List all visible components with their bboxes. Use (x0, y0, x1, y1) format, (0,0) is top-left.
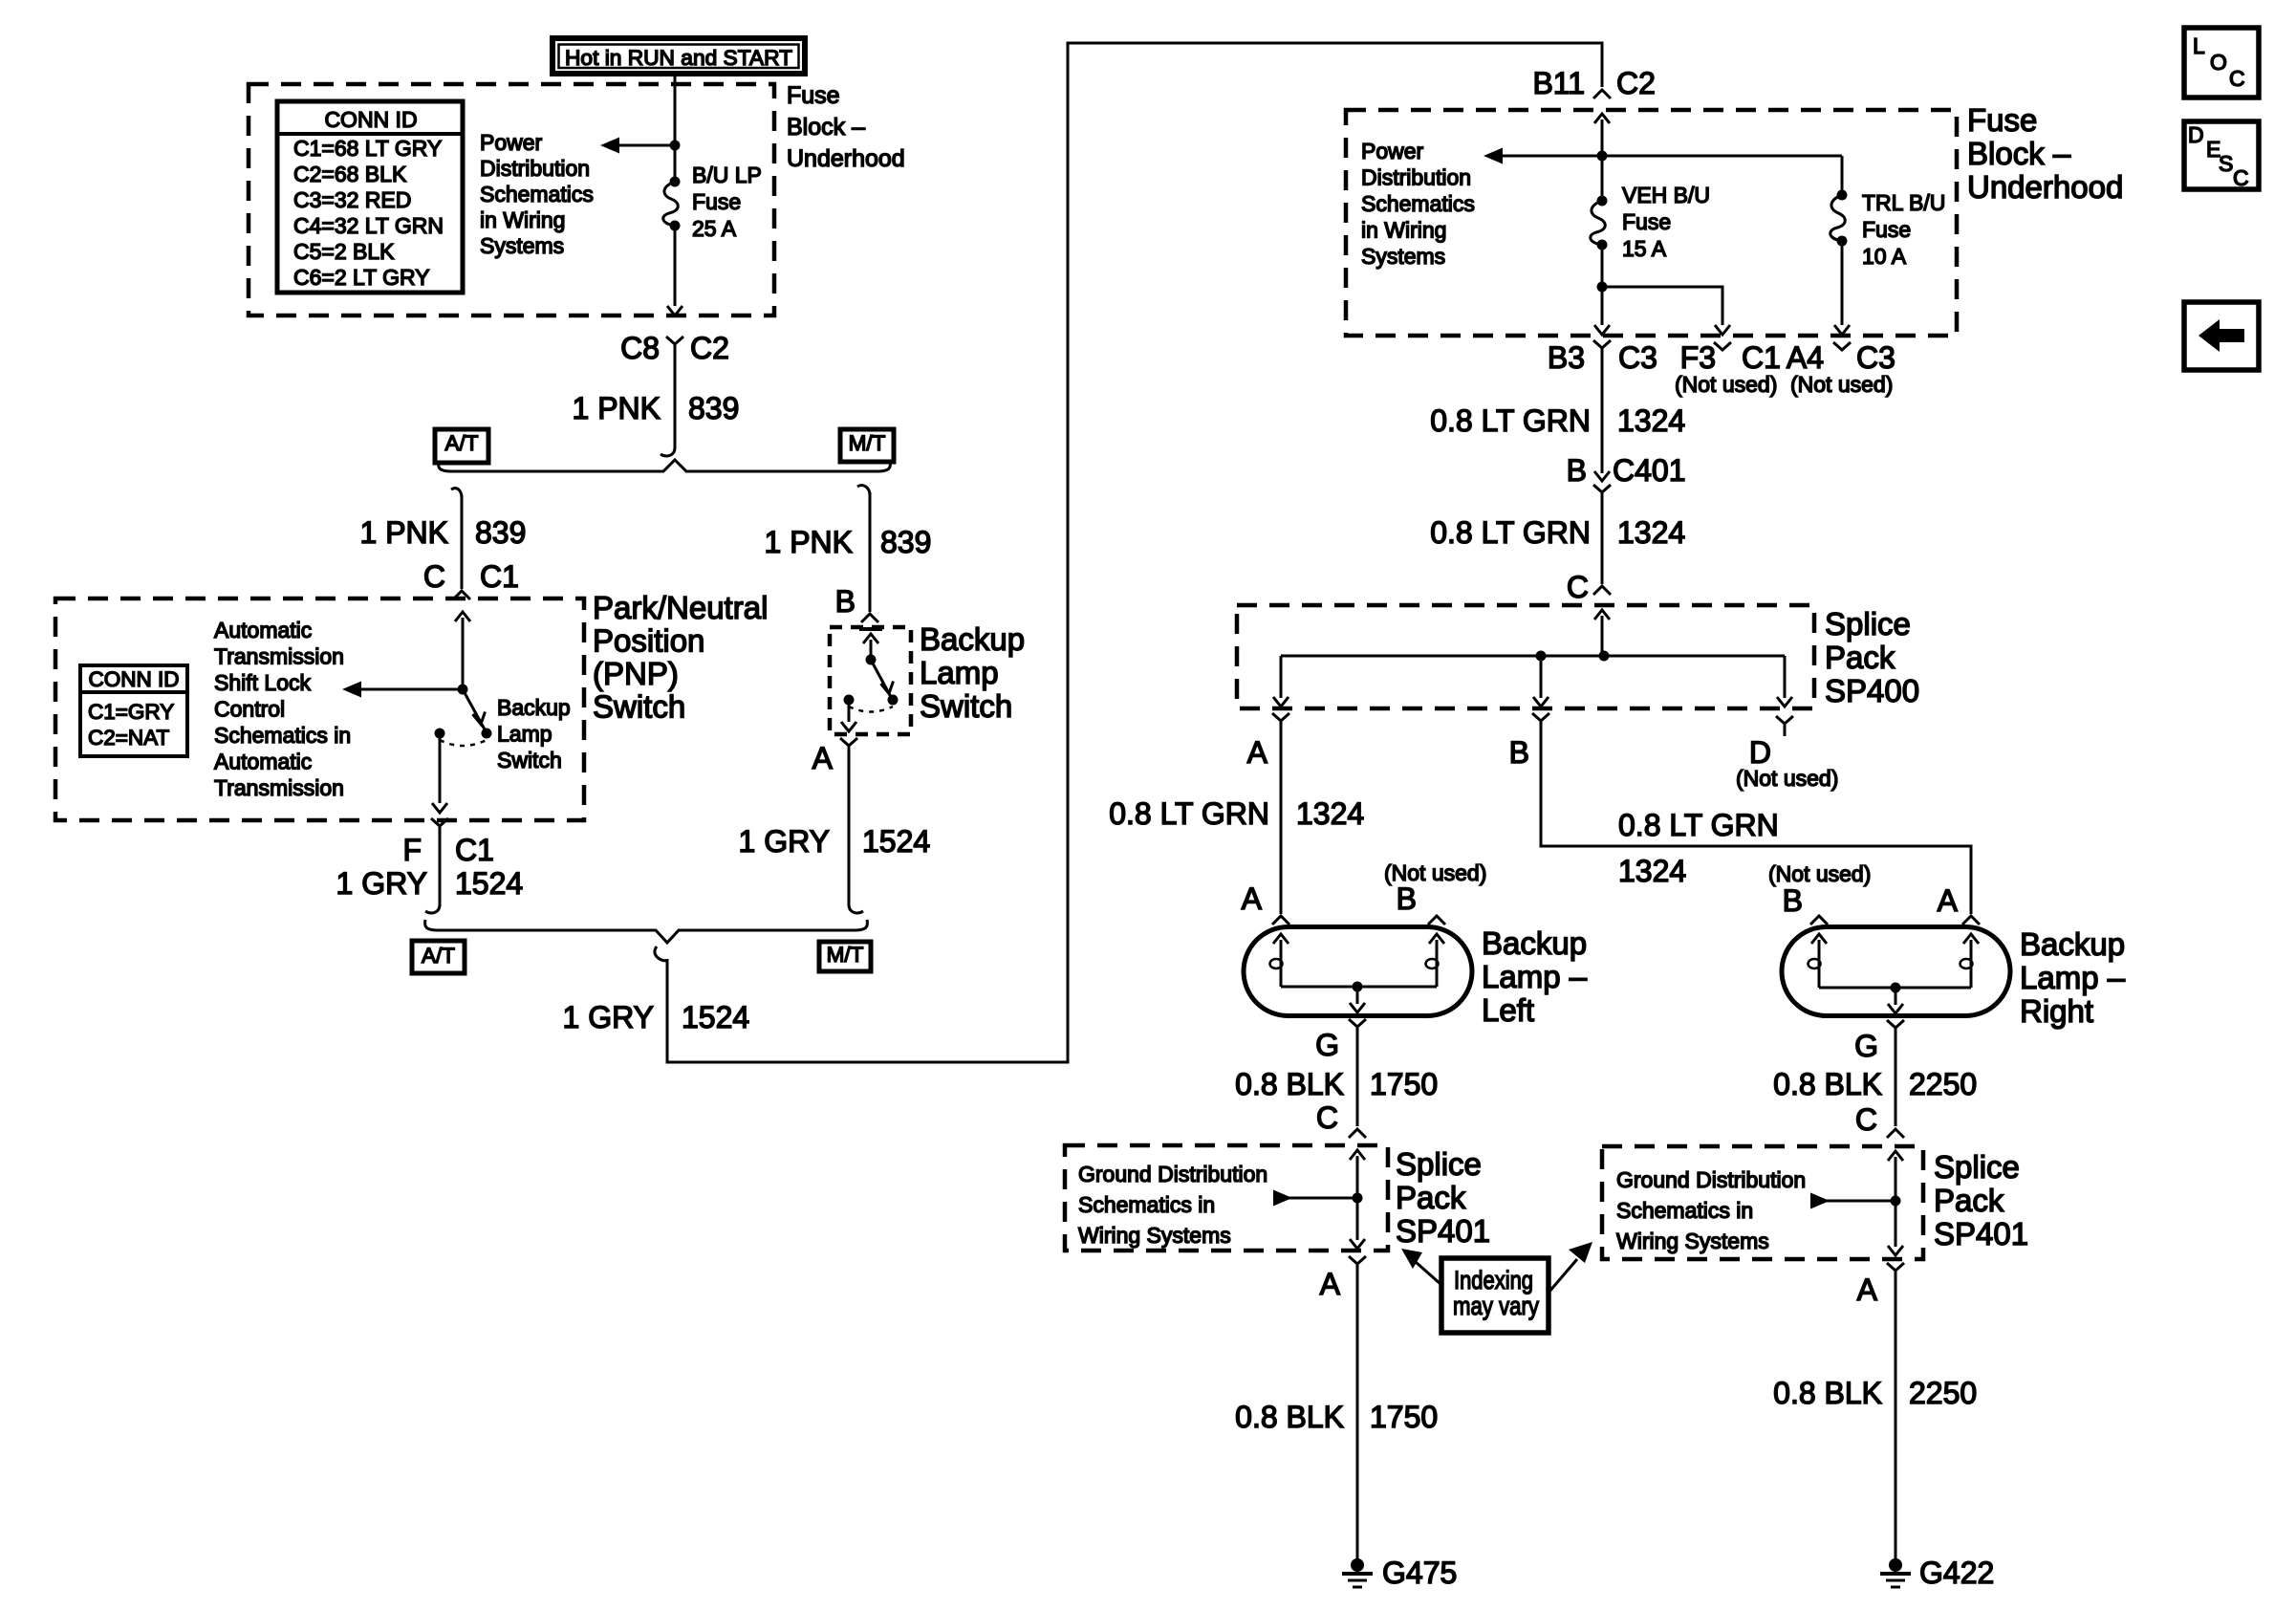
label M/T (840, 429, 894, 462)
node: bus junction C (1599, 651, 1610, 662)
svg-text:Power: Power (480, 130, 543, 155)
terminal B of SP400 (1509, 713, 1549, 770)
wire: TRL fuse feed down (1841, 156, 1844, 195)
wire: lamp right internal bar (1819, 987, 1971, 990)
svg-text:Fuse: Fuse (692, 189, 741, 214)
svg-text:Backup: Backup (1482, 925, 1587, 961)
terminal A of SP400 (1247, 713, 1289, 770)
svg-text:Shift Lock: Shift Lock (214, 670, 311, 695)
svg-text:C: C (1855, 1102, 1877, 1137)
wire: 0.8 LT GRN 1324 to right lamp (1541, 733, 1971, 914)
wire: SP400 terminal B drop (1540, 656, 1543, 698)
CONN ID table left (277, 101, 463, 293)
annotation: Ground Distribution Schematics right (1616, 1167, 1806, 1253)
svg-text:0.8 BLK: 0.8 BLK (1773, 1067, 1882, 1101)
switch arm arrow up (863, 634, 878, 643)
svg-text:0.8 LT GRN: 0.8 LT GRN (1430, 403, 1591, 438)
fuse TRL B/U 10 A (1830, 190, 1946, 270)
svg-text:Block –: Block – (1967, 136, 2071, 171)
svg-text:B: B (1783, 883, 1803, 918)
svg-text:2250: 2250 (1909, 1376, 1977, 1410)
svg-text:Distribution: Distribution (480, 156, 590, 181)
svg-text:A/T: A/T (444, 431, 478, 455)
wire label 1 PNK 839 (A/T branch) (360, 515, 527, 550)
svg-text:Splice: Splice (1825, 606, 1911, 642)
wire label 1 GRY 1524 (common) (563, 1000, 750, 1034)
terminal A of right lamp (1938, 883, 1980, 925)
terminal A of backup lamp switch (812, 738, 857, 775)
wire: A/T - M/T options split brace (439, 460, 891, 471)
svg-text:C2=68 BLK: C2=68 BLK (293, 162, 407, 186)
lamp left filament B (1429, 934, 1444, 944)
svg-text:B3: B3 (1548, 340, 1585, 375)
svg-text:C1: C1 (480, 559, 519, 594)
svg-text:Lamp: Lamp (497, 722, 552, 747)
svg-text:1 PNK: 1 PNK (573, 391, 661, 425)
svg-text:Control: Control (214, 697, 285, 722)
svg-text:SP400: SP400 (1825, 673, 1919, 708)
terminal G of right lamp (1854, 1020, 1904, 1063)
wire: M/T switch output (848, 700, 851, 722)
svg-text:Schematics: Schematics (1361, 191, 1475, 216)
lamp right filament A (1963, 934, 1979, 944)
svg-text:Right: Right (2020, 993, 2093, 1029)
wire: SP400 internal bus (1281, 655, 1785, 658)
wire: 1 GRY 1524 common run to right section (655, 946, 667, 961)
svg-text:(Not used): (Not used) (1736, 766, 1838, 791)
wire label 0.8 LT GRN 1324 (left lamp) (1109, 796, 1364, 831)
splice pack SP401 right dashed box (1602, 1146, 1923, 1259)
svg-text:C: C (1316, 1100, 1338, 1135)
label Fuse Block - Underhood (right) (1967, 102, 2123, 205)
svg-text:Left: Left (1482, 992, 1534, 1028)
fuse VEH B/U 15 A (1591, 183, 1710, 261)
svg-text:Switch: Switch (497, 748, 562, 772)
svg-text:Backup: Backup (497, 695, 571, 720)
node: PNP blade contact (482, 729, 492, 739)
svg-text:B: B (835, 584, 856, 619)
svg-text:Pack: Pack (1934, 1183, 2004, 1218)
park/neutral position switch dashed box (55, 598, 584, 820)
svg-text:TRL B/U: TRL B/U (1862, 190, 1945, 215)
wire: indexing note arrow to SP401 left (1416, 1262, 1440, 1284)
node: M/T blade contact (888, 695, 899, 706)
wire: ground distribution reference arrow right (1810, 1193, 1830, 1209)
svg-text:2250: 2250 (1909, 1067, 1977, 1101)
svg-text:C2: C2 (690, 331, 729, 365)
svg-text:Block –: Block – (787, 114, 865, 141)
fuse B/U LP 25 A (663, 163, 762, 241)
svg-text:C1=GRY: C1=GRY (88, 700, 174, 724)
svg-text:Splice: Splice (1396, 1146, 1482, 1182)
wire: power distribution reference arrow / TRL feed (1503, 155, 1842, 158)
node: lamp right ground point (1891, 983, 1901, 993)
terminal arrow into SP400 (1594, 610, 1610, 620)
svg-text:1524: 1524 (682, 1000, 749, 1034)
wire: 0.8 BLK 1750 to SP401 (1356, 1039, 1359, 1126)
svg-text:1750: 1750 (1370, 1067, 1438, 1101)
connector A4 / C3 (not used) (1787, 340, 1895, 397)
wire label 1 PNK 839 (573, 391, 740, 425)
svg-text:C3: C3 (1856, 340, 1895, 375)
svg-text:A/T: A/T (422, 944, 455, 968)
svg-text:C: C (1567, 570, 1589, 604)
label Park/Neutral Position (PNP) Switch (593, 590, 768, 725)
svg-text:0.8 LT GRN: 0.8 LT GRN (1618, 808, 1779, 842)
svg-text:1 PNK: 1 PNK (765, 525, 853, 559)
node: B3/C1 branch junction (1597, 282, 1608, 293)
wire: 0.8 LT GRN 1324 to left lamp (1280, 733, 1283, 914)
svg-text:Position: Position (593, 623, 704, 659)
svg-text:D: D (2188, 122, 2204, 147)
terminal C of SP401 right (1855, 1102, 1904, 1138)
svg-text:CONN ID: CONN ID (89, 667, 180, 691)
svg-text:Systems: Systems (1361, 244, 1445, 269)
label Splice Pack SP401 (right) (1934, 1149, 2028, 1251)
terminal arrow into PNP switch (455, 612, 470, 621)
svg-text:SP401: SP401 (1934, 1216, 2028, 1251)
svg-text:F3: F3 (1680, 340, 1716, 375)
svg-text:C5=2 BLK: C5=2 BLK (293, 239, 395, 264)
svg-text:(PNP): (PNP) (593, 656, 679, 691)
svg-text:Park/Neutral: Park/Neutral (593, 590, 768, 625)
svg-text:Lamp –: Lamp – (1482, 959, 1588, 994)
svg-text:1524: 1524 (862, 824, 930, 859)
label A/T (merge) (412, 941, 465, 973)
connector C / C1 into PNP switch (423, 559, 519, 599)
wire: 0.8 BLK 2250 to G422 (1895, 1276, 1897, 1559)
svg-text:Hot in RUN and START: Hot in RUN and START (565, 46, 792, 70)
svg-text:Fuse: Fuse (1967, 102, 2037, 138)
label Splice Pack SP400 (1825, 606, 1919, 708)
svg-text:L: L (2193, 33, 2205, 58)
splice pack SP401 left dashed box (1065, 1145, 1388, 1251)
svg-text:C1: C1 (455, 833, 494, 867)
svg-text:1750: 1750 (1370, 1400, 1438, 1434)
wire: VEH fuse output (1601, 245, 1604, 325)
svg-text:SP401: SP401 (1396, 1213, 1490, 1249)
svg-text:839: 839 (688, 391, 739, 425)
svg-text:C6=2 LT GRY: C6=2 LT GRY (293, 265, 430, 290)
svg-text:Fuse: Fuse (1622, 209, 1671, 234)
terminal A of SP401 left (1320, 1256, 1366, 1301)
svg-text:C: C (2229, 66, 2245, 91)
svg-text:Schematics in: Schematics in (1616, 1198, 1753, 1223)
annotation: Power Distribution Schematics left (480, 130, 594, 258)
svg-text:0.8 BLK: 0.8 BLK (1235, 1067, 1344, 1101)
svg-text:A: A (812, 741, 834, 775)
label Fuse Block - Underhood (left) (787, 82, 905, 172)
svg-text:0.8 BLK: 0.8 BLK (1235, 1400, 1344, 1434)
node: M/T output contact (844, 695, 855, 706)
node: M/T switch pivot (866, 655, 877, 665)
terminal C of splice pack SP400 (1567, 570, 1611, 604)
svg-text:C: C (423, 559, 445, 594)
svg-text:G: G (1315, 1028, 1339, 1062)
label Backup Lamp - Left (1482, 925, 1588, 1028)
svg-text:G422: G422 (1919, 1556, 1994, 1590)
svg-text:Fuse: Fuse (787, 82, 840, 109)
svg-text:25 A: 25 A (692, 216, 737, 241)
svg-text:C1=68 LT GRY: C1=68 LT GRY (293, 136, 442, 161)
svg-text:Automatic: Automatic (214, 618, 312, 642)
svg-text:(Not used): (Not used) (1675, 372, 1777, 397)
svg-text:may vary: may vary (1453, 1292, 1539, 1320)
wire: SP400 terminal D drop (1784, 656, 1787, 698)
terminal B of left lamp (not used) (1384, 860, 1486, 925)
svg-text:Wiring Systems: Wiring Systems (1078, 1223, 1231, 1248)
svg-text:10 A: 10 A (1862, 244, 1907, 269)
dashed arc between M/T contacts (849, 707, 893, 712)
svg-text:C8: C8 (620, 331, 660, 365)
node: SP401 right junction (1891, 1196, 1901, 1207)
wire: A/T branch 1 PNK 839 (451, 489, 462, 498)
svg-text:G: G (1854, 1029, 1878, 1063)
backup lamp switch (M/T) dashed box (830, 627, 911, 734)
svg-text:D: D (1749, 735, 1771, 770)
svg-text:A: A (1938, 883, 1959, 918)
svg-text:1 GRY: 1 GRY (336, 866, 427, 901)
wire label 0.8 BLK 1750 (lower) (1235, 1400, 1438, 1434)
backup lamp right body (1782, 927, 2010, 1016)
svg-text:Schematics in: Schematics in (1078, 1192, 1215, 1217)
switch fixed contact bar (859, 627, 882, 631)
svg-text:C3=32 RED: C3=32 RED (293, 187, 411, 212)
node: SP401 left junction (1353, 1193, 1363, 1204)
wire: lamp left ground drop (1356, 987, 1359, 1004)
connector F / C1 (402, 818, 493, 867)
svg-text:A: A (1247, 735, 1268, 770)
svg-text:Systems: Systems (480, 233, 564, 258)
nav box back arrow (2184, 302, 2259, 370)
label Splice Pack SP401 (left) (1396, 1146, 1490, 1249)
terminal C of SP401 left (1316, 1100, 1366, 1138)
wire label 0.8 BLK 2250 (1773, 1067, 1977, 1101)
svg-text:A: A (1857, 1273, 1878, 1307)
CONN ID table PNP (80, 665, 187, 756)
svg-text:B: B (1567, 453, 1587, 488)
svg-text:VEH B/U: VEH B/U (1622, 183, 1710, 207)
svg-text:M/T: M/T (827, 943, 864, 967)
svg-text:839: 839 (880, 525, 931, 559)
svg-text:Indexing: Indexing (1454, 1266, 1533, 1295)
wire: lamp right ground drop (1895, 988, 1897, 1005)
svg-text:Lamp: Lamp (920, 655, 999, 690)
dashed arc between PNP contacts (440, 740, 487, 746)
svg-text:C3: C3 (1618, 340, 1657, 375)
annotation: Power Distribution Schematics right (1361, 139, 1475, 269)
svg-text:Automatic: Automatic (214, 750, 312, 774)
terminal B of backup lamp switch (835, 584, 878, 622)
annotation: Ground Distribution Schematics left (1078, 1162, 1267, 1248)
svg-text:Backup: Backup (2020, 926, 2125, 962)
svg-text:1324: 1324 (1617, 515, 1685, 550)
annotation: Automatic Transmission Shift Lock Control reference (214, 618, 351, 800)
wire: 1 PNK 839 to A/T-M/T split (674, 357, 677, 447)
wire label 0.8 BLK 1750 (1235, 1067, 1438, 1101)
note: Indexing may vary (1441, 1258, 1549, 1333)
svg-text:Backup: Backup (920, 621, 1025, 657)
terminal B of right lamp (not used) (1768, 861, 1871, 925)
backup lamp left body (1244, 927, 1472, 1016)
connector B / C401 (1567, 453, 1686, 505)
wire: shift lock reference arrow (361, 688, 463, 691)
svg-text:Switch: Switch (593, 689, 685, 725)
svg-text:Ground Distribution: Ground Distribution (1078, 1162, 1267, 1186)
nav box LOC (2184, 28, 2259, 98)
svg-text:Transmission: Transmission (214, 644, 344, 669)
wire: lamp left internal bar (1281, 986, 1437, 989)
svg-text:Ground Distribution: Ground Distribution (1616, 1167, 1806, 1192)
svg-text:C: C (2233, 165, 2249, 190)
svg-text:Switch: Switch (920, 688, 1012, 724)
wire: hot feed into fuse block (674, 74, 677, 182)
svg-text:C4=32 LT GRN: C4=32 LT GRN (293, 213, 444, 238)
svg-text:Schematics in: Schematics in (214, 723, 351, 748)
terminal arrow into SP401 left (1350, 1150, 1365, 1160)
svg-text:Transmission: Transmission (214, 775, 344, 800)
svg-text:CONN ID: CONN ID (324, 107, 417, 132)
wire: M/T branch 1 PNK 839 (857, 486, 870, 495)
svg-text:Schematics: Schematics (480, 182, 594, 207)
svg-text:Underhood: Underhood (1967, 169, 2123, 205)
svg-text:G475: G475 (1382, 1556, 1457, 1590)
wire: 0.8 LT GRN 1324 to splice pack (1601, 502, 1604, 584)
svg-text:in Wiring: in Wiring (1361, 218, 1446, 243)
wire: C1 branch (1602, 287, 1722, 325)
svg-text:M/T: M/T (849, 431, 886, 455)
switch blade PNP (463, 689, 485, 729)
svg-text:Pack: Pack (1825, 640, 1895, 675)
svg-text:F: F (402, 833, 422, 867)
svg-text:Underhood: Underhood (787, 145, 905, 172)
node: feed junction (1597, 151, 1608, 162)
svg-text:1 GRY: 1 GRY (739, 824, 830, 859)
wire label 1 PNK 839 (M/T branch) (765, 525, 932, 559)
wire: TRL fuse output (1841, 241, 1844, 325)
connector F3 / C1 (not used) (1675, 340, 1781, 397)
svg-text:B11: B11 (1532, 66, 1585, 100)
wire label 0.8 BLK 2250 (lower) (1773, 1376, 1977, 1410)
svg-text:B: B (1509, 735, 1529, 770)
wire: M/T branch to merge (848, 755, 851, 906)
svg-text:Wiring Systems: Wiring Systems (1616, 1229, 1769, 1253)
node: junction to power distribution (670, 141, 681, 151)
terminal D of SP400 (not used) (1736, 716, 1838, 791)
svg-text:(Not used): (Not used) (1790, 372, 1893, 397)
wire: 0.8 LT GRN 1324 to C401 (1601, 360, 1604, 473)
svg-text:0.8 BLK: 0.8 BLK (1773, 1376, 1882, 1410)
svg-text:1324: 1324 (1617, 403, 1685, 438)
ground G422 (1880, 1556, 1994, 1590)
wire: A/T branch to merge (439, 838, 442, 906)
switch blade M/T (871, 660, 891, 697)
svg-text:1324: 1324 (1618, 854, 1686, 888)
splice pack SP400 dashed box (1237, 605, 1814, 708)
terminal arrow into fuse block (1594, 114, 1610, 123)
svg-text:A: A (1320, 1267, 1341, 1301)
terminal A of left lamp (1242, 881, 1289, 925)
wire label 0.8 LT GRN 1324 (1430, 403, 1685, 438)
node: lamp left ground point (1353, 982, 1363, 992)
svg-text:B: B (1397, 881, 1417, 916)
svg-text:15 A: 15 A (1622, 236, 1667, 261)
node: PNP switch pivot (458, 685, 468, 695)
svg-text:Distribution: Distribution (1361, 165, 1471, 190)
annotation: Backup Lamp Switch (PNP internal) (497, 695, 571, 772)
svg-text:1524: 1524 (455, 866, 523, 901)
wire: PNP output down (439, 733, 442, 803)
terminal arrow into SP401 right (1888, 1151, 1903, 1161)
lamp left filament A (1273, 934, 1289, 944)
svg-text:A4: A4 (1787, 340, 1824, 375)
terminal G of left lamp (1315, 1019, 1366, 1062)
node: bus junction B (1536, 651, 1547, 662)
wire: fuse output to C8 (674, 226, 677, 306)
wire: SP401 left output (1356, 1198, 1359, 1240)
wire: power distribution reference arrow (619, 144, 675, 147)
svg-text:C2=NAT: C2=NAT (88, 726, 169, 750)
wire: indexing note arrow to SP401 right (1549, 1259, 1577, 1293)
svg-text:0.8 LT GRN: 0.8 LT GRN (1109, 796, 1269, 831)
nav box DESC (2184, 121, 2259, 190)
terminal A of SP401 right (1857, 1263, 1904, 1307)
svg-text:A: A (1242, 881, 1263, 916)
lamp right filament B (1811, 934, 1827, 944)
label M/T (merge) (819, 942, 871, 971)
ground G475 (1342, 1556, 1457, 1590)
fuse block underhood left dashed box (249, 84, 774, 315)
svg-text:Splice: Splice (1934, 1149, 2020, 1185)
wire: A/T - M/T merge brace (425, 920, 868, 943)
label A/T (435, 429, 488, 463)
wire: ground distribution reference arrow left (1273, 1190, 1292, 1207)
svg-text:Pack: Pack (1396, 1180, 1466, 1215)
svg-text:C401: C401 (1613, 453, 1686, 488)
wire label 1 GRY 1524 (A/T branch) (336, 866, 524, 901)
wire: SP400 terminal A drop (1280, 656, 1283, 698)
svg-text:839: 839 (475, 515, 526, 550)
connector C8 / C2 (620, 331, 729, 365)
connector B11 / C2 (1532, 66, 1655, 100)
svg-text:Power: Power (1361, 139, 1424, 163)
svg-text:1 PNK: 1 PNK (360, 515, 448, 550)
svg-text:in Wiring: in Wiring (480, 207, 565, 232)
label Backup Lamp Switch (M/T) (920, 621, 1025, 724)
label Backup Lamp - Right (2020, 926, 2126, 1029)
svg-text:B/U LP: B/U LP (692, 163, 762, 187)
power label "Hot in RUN and START" (552, 38, 805, 74)
svg-text:Fuse: Fuse (1862, 217, 1911, 242)
wire: SP401 right output (1895, 1201, 1897, 1247)
svg-text:1324: 1324 (1296, 796, 1364, 831)
wire label 1 GRY 1524 (M/T branch) (739, 824, 931, 859)
wire label 0.8 LT GRN 1324 (second) (1430, 515, 1685, 550)
svg-text:0.8 LT GRN: 0.8 LT GRN (1430, 515, 1591, 550)
svg-text:1 GRY: 1 GRY (563, 1000, 654, 1034)
wire: 0.8 BLK 2250 to SP401 right (1895, 1040, 1897, 1126)
svg-text:Lamp –: Lamp – (2020, 960, 2126, 995)
svg-text:C1: C1 (1742, 340, 1781, 375)
node: PNP output contact (435, 729, 445, 739)
fuse block underhood right dashed box (1346, 110, 1957, 336)
connector B3 / C3 (1548, 340, 1657, 375)
svg-text:O: O (2210, 50, 2227, 75)
svg-text:S: S (2219, 151, 2233, 176)
wire: 0.8 BLK 1750 to G475 (1356, 1274, 1359, 1559)
svg-text:C2: C2 (1616, 66, 1656, 100)
